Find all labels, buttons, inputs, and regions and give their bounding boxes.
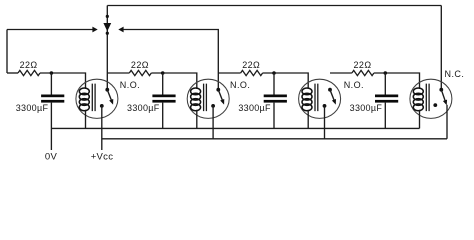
arrow left into node A xyxy=(118,27,123,33)
wire capacitor 2 bottom lead xyxy=(162,103,164,129)
svg-text:N.O.: N.O. xyxy=(120,80,140,90)
node RC junction dot stage 1 xyxy=(50,71,54,75)
node RC junction dot stage 2 xyxy=(161,71,165,75)
wire switch 1 contact to +Vcc bus xyxy=(101,106,103,150)
relay 2 core xyxy=(204,84,207,112)
capacitor 3300µF stage 3 plates xyxy=(264,95,287,103)
wire resistor 4 to coil 4 xyxy=(374,73,420,89)
wire left loop vertical xyxy=(6,30,8,74)
capacitor 3300µF stage 4 plates xyxy=(375,95,398,103)
wire capacitor 3 top lead xyxy=(273,73,275,95)
wire resistor 2 to coil 2 xyxy=(151,73,197,89)
wire switch 2 contact to +Vcc bus xyxy=(212,106,214,139)
relay 4 core xyxy=(426,84,429,112)
resistor 22Ω stage 3 xyxy=(241,70,263,75)
wire switch 3 contact to +Vcc bus xyxy=(324,106,326,139)
wire +Vcc bus xyxy=(102,138,447,140)
node RC junction dot stage 3 xyxy=(272,71,276,75)
resistor 22Ω stage 4 xyxy=(352,70,374,75)
svg-text:N.O.: N.O. xyxy=(344,80,364,90)
relay 1 core xyxy=(92,84,95,112)
wire relay 4 arm contact to +Vcc bus xyxy=(446,105,448,139)
relay 3 coil xyxy=(302,88,312,111)
relay 2 case circle xyxy=(187,79,229,118)
wire stage 2 input lead xyxy=(107,72,129,74)
svg-text:22Ω: 22Ω xyxy=(242,60,260,70)
svg-text:N.O.: N.O. xyxy=(230,80,250,90)
relay 2 switch bottom contact dot xyxy=(211,104,215,108)
node RC junction dot stage 4 xyxy=(384,71,388,75)
wire capacitor 1 bottom lead xyxy=(50,103,52,150)
wire capacitor 3 bottom lead xyxy=(273,103,275,129)
wire capacitor 4 bottom lead xyxy=(384,103,386,129)
wire resistor 1 to coil 1 xyxy=(40,73,86,89)
wire coil 4 bottom lead xyxy=(419,110,421,129)
svg-text:3300µF: 3300µF xyxy=(238,103,271,113)
capacitor 3300µF stage 2 plates xyxy=(152,95,175,103)
wire stage 4 input lead xyxy=(330,72,352,74)
svg-text:22Ω: 22Ω xyxy=(131,60,149,70)
wire capacitor 4 top lead xyxy=(384,73,386,95)
wire capacitor 2 top lead xyxy=(162,73,164,95)
svg-text:N.C.: N.C. xyxy=(445,69,465,79)
node A junction dot xyxy=(106,32,109,35)
arrow right into node A xyxy=(92,27,97,33)
relay 1 coil xyxy=(79,88,89,111)
relay 3 switch arm (N.O.) xyxy=(330,90,336,105)
relay 3 switch bottom contact dot xyxy=(323,104,327,108)
relay 4 coil xyxy=(413,88,423,111)
arrow down into node A xyxy=(103,23,111,31)
relay 4 switch common contact dot xyxy=(439,88,443,92)
svg-text:+Vcc: +Vcc xyxy=(91,151,114,162)
wire coil 2 bottom lead xyxy=(196,110,198,129)
wire relay 1 common vertical xyxy=(106,6,108,90)
relay 3 core xyxy=(315,84,318,112)
resistor 22Ω stage 1 xyxy=(18,70,40,75)
wire left feedback loop horizontal xyxy=(7,29,93,31)
svg-text:3300µF: 3300µF xyxy=(350,103,383,113)
wire relay 2 common feedback xyxy=(123,30,218,90)
wire coil 3 bottom lead xyxy=(307,110,309,129)
wire coil 1 bottom lead xyxy=(85,110,87,129)
relay 2 switch arm (N.O.) xyxy=(218,90,224,105)
svg-text:22Ω: 22Ω xyxy=(20,60,38,70)
relay 1 switch common contact dot xyxy=(105,88,109,92)
wire 0V bus xyxy=(51,127,419,129)
resistor 22Ω stage 2 xyxy=(129,70,151,75)
capacitor 3300µF stage 1 plates xyxy=(41,95,64,103)
relay 4 case circle xyxy=(410,79,452,118)
relay 3 switch common contact dot xyxy=(328,88,332,92)
relay 1 switch arm (N.O.) xyxy=(107,90,113,105)
wire stage 3 input lead xyxy=(218,72,240,74)
relay 2 coil xyxy=(191,88,201,111)
relay 3 case circle xyxy=(299,79,341,118)
wire top feedback bus (relay4 common to relay1 common) xyxy=(107,5,441,7)
wire stage 1 input lead xyxy=(7,72,18,74)
svg-text:3300µF: 3300µF xyxy=(127,103,160,113)
node junction dot upper on relay1 common xyxy=(106,15,109,18)
relay 4 unused contact dot xyxy=(433,103,437,107)
wire resistor 3 to coil 3 xyxy=(263,73,309,89)
wire capacitor 1 top lead xyxy=(50,73,52,95)
wire relay 4 common vertical xyxy=(440,6,442,90)
svg-text:22Ω: 22Ω xyxy=(354,60,372,70)
relay 1 switch bottom contact dot xyxy=(100,104,104,108)
relay 1 case circle xyxy=(76,79,118,118)
svg-text:3300µF: 3300µF xyxy=(16,103,49,113)
relay 2 switch common contact dot xyxy=(216,88,220,92)
relay 4 switch arm (N.C.) xyxy=(441,90,447,106)
svg-text:0V: 0V xyxy=(45,151,58,162)
